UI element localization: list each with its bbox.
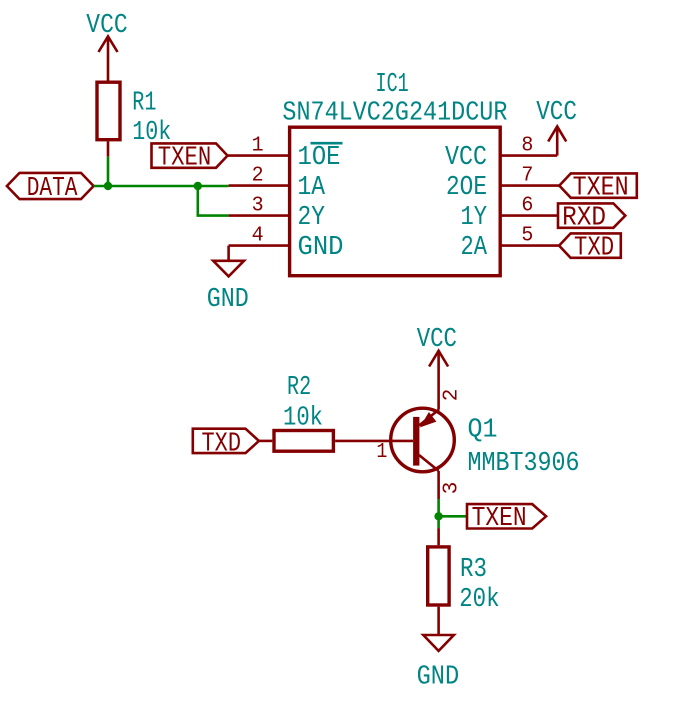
- svg-text:2Y: 2Y: [298, 202, 326, 232]
- overline over OE: [311, 142, 343, 145]
- svg-text:1Y: 1Y: [461, 202, 488, 232]
- svg-text:R1: R1: [132, 87, 156, 117]
- ground symbol (R3): [423, 635, 454, 651]
- IC1 body: [290, 127, 501, 276]
- svg-text:7: 7: [521, 164, 533, 187]
- wire branch to pin 3: [198, 186, 229, 216]
- svg-text:1: 1: [252, 134, 264, 157]
- svg-text:2: 2: [440, 389, 463, 402]
- pin 5 line: [500, 244, 559, 247]
- svg-text:R2: R2: [287, 372, 311, 402]
- pin 1 line: [228, 154, 290, 157]
- svg-text:2A: 2A: [461, 232, 488, 262]
- pin 6 line: [500, 214, 558, 217]
- resistor R3: [428, 547, 449, 605]
- svg-text:20k: 20k: [459, 584, 499, 614]
- global label TXEN (at Q1 collector): [467, 504, 546, 528]
- global label TXEN (at pin 7): [559, 173, 637, 197]
- svg-text:3: 3: [440, 482, 463, 495]
- svg-text:2OE: 2OE: [446, 172, 487, 202]
- svg-text:VCC: VCC: [536, 97, 577, 127]
- pin 7 line: [500, 184, 559, 187]
- svg-text:RXD: RXD: [562, 202, 606, 232]
- svg-text:MMBT3906: MMBT3906: [468, 448, 580, 478]
- power symbol VCC (top left, above R1): [99, 36, 118, 80]
- svg-text:1OE: 1OE: [298, 142, 341, 172]
- wire junction to R3: [437, 528, 440, 545]
- svg-text:GND: GND: [298, 232, 344, 262]
- global label TXEN (at IC pin 1): [152, 143, 228, 167]
- global label DATA (bidirectional): [7, 173, 94, 199]
- resistor R2: [274, 431, 333, 452]
- wire Q1 collector down (pin): [437, 471, 440, 499]
- Q1 emitter diagonal: [419, 410, 439, 426]
- wire R3 to GND: [437, 607, 440, 635]
- svg-text:3: 3: [252, 194, 264, 217]
- svg-text:TXD: TXD: [202, 428, 242, 458]
- svg-text:TXEN: TXEN: [158, 142, 212, 172]
- ground symbol (IC): [213, 261, 244, 277]
- svg-text:GND: GND: [207, 284, 249, 314]
- Q1 base bar: [413, 417, 419, 466]
- pin 4 line: [229, 244, 290, 247]
- wire R1 to bus junction: [107, 157, 110, 186]
- wire collector to junction (green): [437, 499, 440, 528]
- svg-text:2: 2: [252, 164, 264, 187]
- global label RXD (at pin 6): [558, 203, 625, 227]
- svg-text:DATA: DATA: [27, 173, 78, 203]
- svg-text:TXEN: TXEN: [472, 503, 527, 533]
- svg-text:1: 1: [376, 441, 387, 464]
- svg-text:VCC: VCC: [445, 142, 487, 172]
- global label TXD (at pin 5): [559, 233, 621, 257]
- junction at pin2 branch: [194, 182, 202, 190]
- svg-text:10k: 10k: [283, 403, 323, 433]
- pin 8 line: [500, 154, 557, 157]
- wire R2 to Q1 base: [335, 440, 413, 443]
- transistor Q1 body circle: [391, 408, 455, 472]
- svg-text:IC1: IC1: [376, 69, 409, 99]
- svg-text:TXD: TXD: [574, 232, 614, 262]
- svg-text:VCC: VCC: [417, 324, 457, 354]
- junction at R1/DATA: [104, 182, 112, 190]
- svg-text:1A: 1A: [298, 172, 326, 202]
- resistor R1: [97, 82, 120, 140]
- svg-text:R3: R3: [460, 554, 487, 584]
- junction at TXEN tap: [434, 512, 442, 520]
- svg-text:6: 6: [521, 194, 533, 217]
- wire junction to TXEN label: [439, 515, 467, 518]
- Q1 collector diagonal: [419, 455, 439, 471]
- svg-text:5: 5: [521, 224, 533, 247]
- svg-text:GND: GND: [417, 661, 460, 691]
- global label TXD (at R2): [193, 429, 259, 453]
- svg-text:TXEN: TXEN: [573, 172, 629, 202]
- wire pin 4 to GND: [227, 246, 230, 261]
- svg-text:VCC: VCC: [86, 10, 127, 40]
- Q1 emitter arrow (PNP): [422, 414, 435, 426]
- svg-text:4: 4: [252, 224, 264, 247]
- power symbol VCC (at pin 8): [548, 126, 566, 155]
- wire DATA to pin 2: [94, 185, 229, 188]
- pin 2 line: [229, 184, 290, 187]
- wire TXD label to R2: [259, 440, 272, 443]
- pin 3 line: [229, 214, 290, 217]
- power symbol VCC (above Q1): [429, 351, 448, 410]
- svg-text:Q1: Q1: [468, 415, 498, 445]
- pin stub below R1: [107, 141, 110, 156]
- svg-text:SN74LVC2G241DCUR: SN74LVC2G241DCUR: [282, 98, 507, 128]
- svg-text:8: 8: [521, 134, 533, 157]
